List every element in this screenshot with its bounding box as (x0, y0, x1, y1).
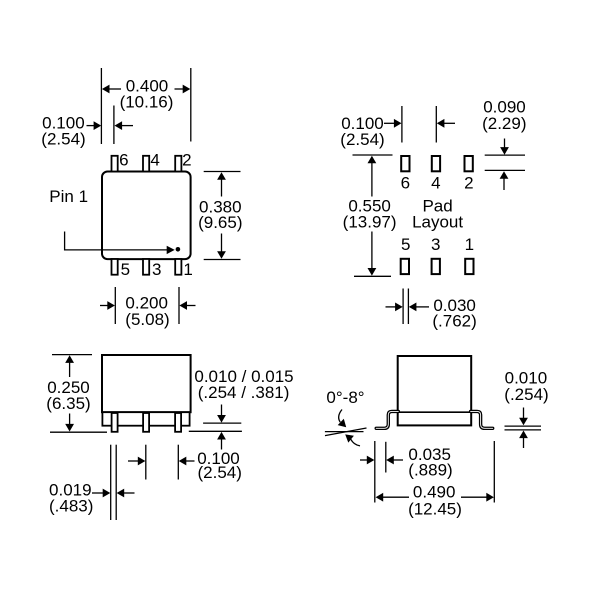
wire: dim 0.035 left extension line (374, 441, 376, 503)
svg-text:0.490: 0.490 (413, 482, 456, 501)
wire: dim 0.200 left extension line (114, 287, 116, 324)
wire: dim 0.200 right extension line (178, 287, 180, 324)
pin 2 (top view, lead) (175, 156, 181, 172)
value label (6.35) (46, 394, 90, 413)
pad number 4 (431, 174, 440, 193)
wire: Pin 1 leader with arrow (65, 232, 175, 255)
svg-text:4: 4 (431, 174, 440, 193)
wire: curved leader lower arrow (345, 434, 360, 446)
wire: pad dim 0.100 left-pointing arrow (437, 119, 455, 128)
value label (.254) (lead thickness) (504, 385, 548, 404)
svg-text:Layout: Layout (412, 213, 463, 232)
package body U1 (top view) (102, 172, 191, 260)
value label (12.45) (408, 500, 462, 519)
value label 0.019 (49, 480, 92, 499)
svg-text:(2.54): (2.54) (41, 129, 85, 148)
pad number 6 (401, 174, 410, 193)
value label 0.100 (pad pitch) (341, 114, 384, 133)
pin number 5 (121, 260, 130, 279)
wire: dim 0.010/0.015 upper reference line (203, 422, 241, 424)
svg-text:(5.08): (5.08) (125, 310, 169, 329)
lead 1 (front view) (175, 413, 181, 432)
svg-text:3: 3 (431, 235, 440, 254)
wire: dim 0.019 left-pointing arrow (117, 489, 135, 498)
wire: dim 0.550 bottom extension line (354, 275, 391, 277)
wire: lead 3 center extension line (145, 445, 147, 480)
wire: dim 0.030 left-pointing arrow (409, 303, 429, 312)
svg-text:(2.29): (2.29) (482, 114, 526, 133)
wire: dim 0.380 bottom extension line (204, 259, 241, 261)
svg-text:(10.16): (10.16) (120, 93, 174, 112)
svg-text:3: 3 (152, 260, 161, 279)
package body U1 (side view) (398, 356, 472, 425)
wire: pad dim 0.100 extension line (pad 4) (435, 106, 437, 143)
wire: dim 0.010/0.015 down arrow (217, 405, 226, 423)
wire: dim 0.490 right arrow (461, 493, 494, 502)
node: pin 1 index dot (176, 247, 181, 252)
pin number 1 (183, 260, 192, 279)
wire: dim 0.200 left-pointing arrow (179, 301, 195, 310)
wire: dim 0.100 extension line (pin 6 center) (113, 106, 115, 145)
wire: dim 0.380 up arrow (217, 172, 226, 196)
value label 0.490 (413, 482, 456, 501)
pin 3 (top view, lead) (143, 259, 149, 275)
label Pad (422, 197, 452, 216)
package base flange (front view) (102, 412, 189, 426)
value label 0.100 (42, 113, 85, 132)
wire: dim 0.010 lower reference line (505, 429, 542, 431)
wire: dim 0.090 down arrow (500, 139, 509, 155)
wire: dim 0.035 left-pointing arrow (386, 456, 403, 465)
wire: dim 0.019 left extension line (110, 445, 112, 520)
value label 0.010 (lead thickness) (505, 368, 548, 387)
value label 0.035 (408, 445, 451, 464)
svg-text:5: 5 (401, 235, 410, 254)
wire: dim 0.090 up arrow (500, 171, 509, 190)
wire: dim 0.030 right extension line (407, 289, 409, 325)
svg-text:2: 2 (182, 150, 191, 169)
svg-text:Pin 1: Pin 1 (49, 187, 88, 206)
wire: dim 0.090 lower reference line (485, 169, 525, 171)
wire: dim 0.490 left arrow (376, 493, 409, 502)
pin number 3 (152, 260, 161, 279)
wire: dim 0.490 right extension line (493, 441, 495, 503)
value label 0.250 (47, 378, 90, 397)
label 0&#176;-8&#176; lead angle (326, 388, 364, 407)
svg-text:(.889): (.889) (408, 460, 452, 479)
wire: dim 0.250 down arrow (65, 414, 74, 432)
svg-text:4: 4 (150, 150, 159, 169)
value label (9.65) (198, 213, 242, 232)
wire: dim 0.100 left-pointing arrow (front view) (179, 457, 195, 466)
label Pin 1 (49, 187, 88, 206)
wire: dim 0.400 left extension line (100, 68, 102, 144)
svg-text:(2.54): (2.54) (197, 463, 241, 482)
wire: dim 0.019 right-pointing arrow (92, 489, 110, 498)
value label (10.16) (120, 93, 174, 112)
wire: dim 0.035 right extension line (385, 442, 387, 473)
svg-text:(2.54): (2.54) (340, 130, 384, 149)
value label 0.010 / 0.015 (194, 367, 293, 386)
package mold parting line (398, 411, 472, 413)
wire: dim 0.035 right-pointing arrow (360, 456, 374, 465)
wire: dim 0.030 right-pointing arrow (386, 303, 403, 312)
svg-text:(.762): (.762) (432, 312, 476, 331)
value label (5.08) (125, 310, 169, 329)
svg-text:(6.35): (6.35) (46, 394, 90, 413)
value label (13.97) (343, 213, 397, 232)
wire: dim 0.380 down arrow (217, 234, 226, 259)
value label 0.550 (348, 197, 391, 216)
wire: dim 0.100 right-pointing arrow (87, 121, 102, 130)
wire: curved leader upper arrow (338, 410, 347, 428)
pad 2 (pad layout) (465, 156, 473, 171)
wire: dim 0.250 top extension line (52, 354, 92, 356)
wire: dim 0.010 down arrow (519, 408, 528, 426)
svg-text:0°-8°: 0°-8° (326, 388, 364, 407)
svg-text:(.254): (.254) (504, 385, 548, 404)
wire: dim 0.400 left arrow (102, 85, 121, 94)
wire: lead angle line (325, 428, 367, 436)
wire: dim 0.010/0.015 lower reference line (189, 430, 242, 432)
lead 3 (front view) (143, 413, 149, 432)
wire: dim 0.250 up arrow (65, 355, 74, 377)
wire: dim 0.100 left-pointing arrow (115, 121, 134, 130)
value label (2.54) (41, 129, 85, 148)
value label (2.54) (lead pitch) (197, 463, 241, 482)
lead 5 (front view) (112, 413, 118, 432)
pad 3 (pad layout) (432, 259, 440, 274)
value label 0.030 (433, 296, 476, 315)
value label 0.090 (483, 97, 526, 116)
svg-text:(9.65): (9.65) (198, 213, 242, 232)
wire: dim 0.550 up arrow (368, 156, 377, 197)
wire: dim 0.010 upper reference line (505, 425, 542, 427)
wire: pad dim 0.100 right-pointing arrow (384, 119, 402, 128)
value label 0.400 (126, 77, 169, 96)
wire: dim 0.550 top extension line (353, 154, 393, 156)
wire: lead 1 center extension line (177, 445, 179, 480)
pad 6 (pad layout) (401, 156, 409, 171)
value label (.889) (408, 460, 452, 479)
svg-text:6: 6 (119, 150, 128, 169)
value label (.762) (432, 312, 476, 331)
pin 6 (top view, lead) (112, 156, 118, 172)
wire: dim 0.010 up arrow (519, 431, 528, 449)
pin 1 (top view, lead) (175, 259, 181, 275)
pin 5 (top view, lead) (112, 259, 118, 275)
label Layout (412, 213, 463, 232)
wire: dim 0.400 right extension line (190, 68, 192, 142)
svg-text:1: 1 (183, 260, 192, 279)
value label (.483) (49, 496, 93, 515)
package body U1 (front view) (102, 355, 191, 412)
wire: dim 0.010/0.015 up arrow (217, 432, 226, 450)
wire: dim 0.200 right-pointing arrow (100, 301, 115, 310)
wire: pad dim 0.100 extension line (pad 6) (401, 106, 403, 143)
pin number 2 (182, 150, 191, 169)
svg-text:(.483): (.483) (49, 496, 93, 515)
svg-text:2: 2 (464, 174, 473, 193)
pad number 2 (464, 174, 473, 193)
svg-text:6: 6 (401, 174, 410, 193)
svg-text:(12.45): (12.45) (408, 500, 462, 519)
pad number 1 (465, 235, 474, 254)
pad number 5 (401, 235, 410, 254)
svg-text:1: 1 (465, 235, 474, 254)
svg-text:(.254 / .381): (.254 / .381) (198, 383, 290, 402)
wire: seating plane line (325, 431, 364, 433)
lead right gull-wing (side view) (471, 411, 493, 428)
pin 4 (top view, lead) (143, 156, 149, 172)
svg-text:5: 5 (121, 260, 130, 279)
value label (.254 / .381) (198, 383, 290, 402)
wire: dim 0.100 right-pointing arrow (front view) (128, 457, 145, 466)
wire: dim 0.380 top extension line (204, 171, 241, 173)
wire: dim 0.019 right extension line (115, 445, 117, 520)
lead left gull-wing (side view) (376, 411, 398, 428)
pad 4 (pad layout) (432, 156, 440, 171)
wire: dim 0.250 bottom extension line (50, 431, 107, 433)
value label 0.100 (lead pitch) (197, 449, 240, 468)
pad number 3 (431, 235, 440, 254)
wire: dim 0.550 down arrow (368, 232, 377, 276)
svg-text:(13.97): (13.97) (343, 213, 397, 232)
pin number 4 (150, 150, 159, 169)
wire: dim 0.400 right arrow (175, 85, 191, 94)
pad 5 (pad layout) (401, 259, 409, 274)
value label (2.54) (pad pitch) (340, 130, 384, 149)
wire: dim 0.030 left extension line (402, 289, 404, 325)
value label 0.380 (199, 197, 242, 216)
wire: dim 0.090 upper reference line (485, 154, 525, 156)
pad 1 (pad layout) (465, 259, 473, 274)
pin number 6 (119, 150, 128, 169)
value label 0.200 (125, 293, 168, 312)
value label (2.29) (482, 114, 526, 133)
